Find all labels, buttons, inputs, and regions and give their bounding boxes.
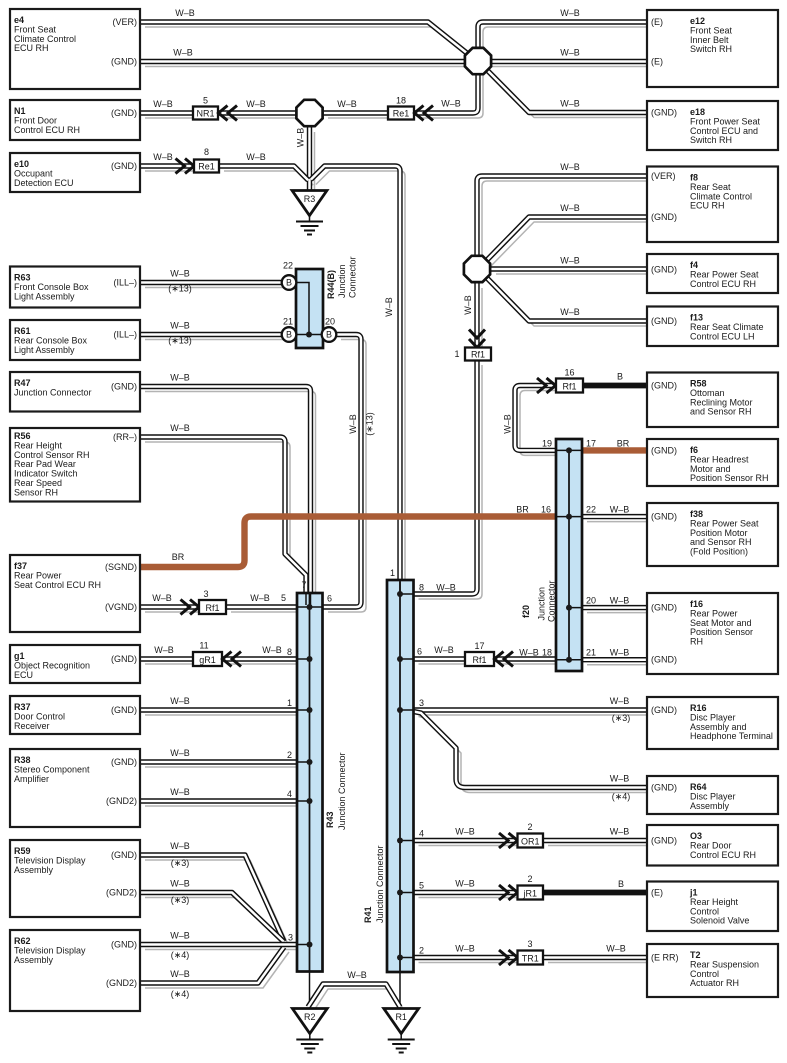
svg-text:(VGND): (VGND)	[105, 602, 137, 612]
svg-text:BR: BR	[617, 438, 630, 448]
svg-text:Headphone Terminal: Headphone Terminal	[690, 731, 773, 741]
wire f20 pin 22 to f38 (GND)	[582, 514, 647, 519]
svg-text:(GND): (GND)	[651, 512, 677, 522]
svg-text:W–B: W–B	[173, 48, 193, 58]
svg-text:(∗13): (∗13)	[168, 336, 192, 346]
svg-text:W–B: W–B	[347, 970, 367, 980]
svg-text:BR: BR	[516, 505, 529, 515]
wire R41 pin 4 to OR1	[414, 838, 518, 843]
wire TR1 to T2 (E RR)	[543, 955, 647, 960]
connector Re1 pin 18	[388, 107, 414, 120]
svg-text:W–B: W–B	[560, 203, 580, 213]
svg-text:W–B: W–B	[152, 593, 172, 603]
svg-text:W–B: W–B	[441, 99, 461, 109]
R43 internal line redraw	[309, 593, 311, 972]
svg-text:ECU RH: ECU RH	[14, 43, 49, 53]
wire R38 (GND) to R43 pin 2	[140, 759, 297, 764]
label R44(B) Junction Connector	[326, 256, 358, 299]
wire splice to e18 (GND)	[486, 69, 647, 113]
svg-text:B: B	[286, 278, 292, 288]
svg-text:ECU RH: ECU RH	[690, 201, 725, 211]
svg-text:3: 3	[527, 939, 532, 949]
svg-text:Re1: Re1	[198, 161, 215, 171]
wire splice S to f4 (GND)	[491, 266, 647, 271]
svg-text:(∗13): (∗13)	[365, 412, 375, 436]
svg-text:(GND): (GND)	[111, 161, 137, 171]
svg-text:W–B: W–B	[560, 162, 580, 172]
svg-text:Actuator RH: Actuator RH	[690, 978, 739, 988]
svg-text:B: B	[286, 330, 292, 340]
wire e4 (VER) to splice	[140, 22, 468, 54]
wire R47 down to R43 pin 7	[140, 387, 311, 594]
wire N1 to NR1	[140, 110, 193, 115]
svg-text:Junction: Junction	[537, 587, 547, 621]
brown wire f20 pin 17 to f6 (GND)	[582, 447, 647, 453]
wire from R3 drop right, corner down to R41 pin 1	[311, 166, 400, 580]
svg-text:W–B: W–B	[436, 583, 456, 593]
wire R61 to circle B 21	[140, 332, 282, 337]
svg-text:Junction Connector: Junction Connector	[375, 845, 385, 923]
connector NR1	[193, 107, 218, 120]
f16 Rear Power Seat Motor and Position Sensor RH	[647, 593, 778, 674]
T2 Rear Suspension Control Actuator RH	[647, 944, 778, 997]
R64 Disc Player Assembly	[647, 776, 778, 814]
arrows at Rf1 3	[181, 600, 200, 615]
R16 Disc Player Assembly and Headphone Terminal	[647, 697, 778, 749]
svg-text:2: 2	[287, 750, 292, 760]
junction connector R41 body	[387, 580, 414, 972]
ECU N1 Front Door Control ECU RH	[10, 100, 140, 140]
R41 internal bus line	[399, 580, 401, 972]
svg-text:Rf1: Rf1	[471, 349, 485, 359]
wire splice to e12 (E) top	[478, 22, 647, 52]
svg-text:W–B: W–B	[384, 297, 394, 317]
svg-text:Light Assembly: Light Assembly	[14, 345, 75, 355]
svg-text:3: 3	[203, 589, 208, 599]
connector TR1	[518, 951, 544, 965]
junction dots R43	[307, 604, 313, 610]
svg-text:(GND): (GND)	[651, 705, 677, 715]
svg-text:W–B: W–B	[170, 787, 190, 797]
svg-text:(GND): (GND)	[651, 265, 677, 275]
splice joint top-left	[296, 100, 322, 126]
svg-text:W–B: W–B	[455, 827, 475, 837]
svg-text:W–B: W–B	[175, 8, 195, 18]
svg-text:(GND): (GND)	[651, 655, 677, 665]
wire R41 pin 2 to TR1	[414, 955, 518, 960]
splice joint top-right	[465, 48, 491, 74]
svg-text:1: 1	[454, 349, 459, 359]
R41 pin stubs	[400, 594, 414, 958]
svg-text:R1: R1	[395, 1012, 407, 1022]
svg-text:8: 8	[287, 647, 292, 657]
svg-text:(VER): (VER)	[113, 17, 138, 27]
R43 pin stubs	[297, 607, 323, 945]
svg-text:W–B: W–B	[170, 879, 190, 889]
svg-text:W–B: W–B	[348, 414, 358, 434]
wire Rf1 17 to f20 pin 18	[494, 656, 556, 661]
wire R59 (GND) to fan point	[140, 855, 284, 942]
svg-text:Junction: Junction	[337, 264, 347, 298]
svg-text:(GND2): (GND2)	[106, 796, 137, 806]
svg-text:(ILL–): (ILL–)	[113, 278, 137, 288]
wire f20 pin 19 loop to Rf1 16	[515, 386, 556, 451]
wire R41 pin 3 to R16 (GND)	[414, 707, 648, 712]
svg-text:17: 17	[586, 438, 596, 448]
svg-text:6: 6	[327, 594, 332, 604]
wire g1 to gR1	[140, 656, 193, 661]
svg-text:(RR–): (RR–)	[113, 432, 137, 442]
arrows at Re1 18	[415, 106, 434, 121]
svg-text:Light Assembly: Light Assembly	[14, 291, 75, 301]
svg-text:R41: R41	[363, 906, 373, 923]
R63 Front Console Box Light Assembly	[10, 267, 140, 308]
connector Rf1 pin 16	[556, 379, 583, 393]
f20 pin stubs	[556, 450, 582, 659]
svg-text:(GND): (GND)	[651, 381, 677, 391]
svg-text:(E): (E)	[651, 17, 663, 27]
svg-text:Control ECU LH: Control ECU LH	[690, 331, 755, 341]
svg-text:4: 4	[419, 829, 424, 839]
svg-text:(∗13): (∗13)	[168, 284, 192, 294]
svg-text:Solenoid Valve: Solenoid Valve	[690, 916, 749, 926]
svg-text:(GND): (GND)	[111, 850, 137, 860]
pin1 entry into R41	[399, 580, 401, 595]
svg-text:R2: R2	[304, 1012, 316, 1022]
black wire Rf1 16 to R58 (GND)	[583, 383, 647, 389]
f6 Rear Headrest Motor and Position Sensor RH	[647, 439, 778, 486]
svg-text:(GND): (GND)	[651, 836, 677, 846]
svg-text:(GND): (GND)	[651, 108, 677, 118]
wire R41 pin 6 to Rf1 17	[414, 656, 466, 661]
svg-text:(E): (E)	[651, 57, 663, 67]
connector gR1	[193, 652, 222, 666]
ECU g1 Object Recognition ECU	[10, 645, 140, 683]
wire splice N to Re1 18	[323, 110, 388, 115]
svg-text:2: 2	[527, 822, 532, 832]
junction connector R44(B) body	[296, 269, 323, 348]
wire ground R2 to ground R1 link	[308, 984, 400, 1007]
svg-text:B: B	[618, 879, 624, 889]
svg-text:(Fold Position): (Fold Position)	[690, 547, 748, 557]
f20 internal bus line	[568, 450, 570, 659]
arrows above Rf1 1	[469, 330, 485, 348]
svg-text:18: 18	[396, 96, 406, 106]
e18 Front Power Seat Control ECU and Switch RH	[647, 101, 778, 150]
svg-text:W–B: W–B	[610, 596, 630, 606]
svg-text:R43: R43	[325, 811, 335, 828]
svg-text:Re1: Re1	[393, 108, 410, 118]
R62 Television Display Assembly	[10, 930, 140, 1011]
svg-text:W–B: W–B	[154, 645, 174, 655]
e12 Front Seat Inner Belt Switch RH	[647, 10, 778, 87]
svg-text:W–B: W–B	[455, 879, 475, 889]
ECU f37 Rear Power Seat Control ECU RH	[10, 555, 140, 632]
svg-text:W–B: W–B	[560, 256, 580, 266]
svg-text:(GND): (GND)	[651, 783, 677, 793]
svg-text:Switch RH: Switch RH	[690, 135, 732, 145]
svg-text:Assembly: Assembly	[14, 955, 54, 965]
wire splice N down to ground R3	[307, 127, 312, 191]
svg-text:W–B: W–B	[337, 99, 357, 109]
wire e10 to Re1 8	[140, 163, 194, 168]
svg-text:(∗4): (∗4)	[612, 792, 631, 802]
svg-text:Rf1: Rf1	[562, 381, 576, 391]
svg-text:W–B: W–B	[560, 48, 580, 58]
svg-text:W–B: W–B	[153, 152, 173, 162]
svg-text:W–B: W–B	[503, 414, 513, 434]
svg-text:Sensor RH: Sensor RH	[14, 487, 58, 497]
svg-text:(∗3): (∗3)	[612, 713, 631, 723]
R37 Door Control Receiver	[10, 696, 140, 734]
svg-text:W–B: W–B	[170, 931, 190, 941]
R58 Ottoman Reclining Motor and Sensor RH	[647, 373, 778, 428]
svg-text:(GND): (GND)	[651, 212, 677, 222]
ground point R1	[384, 1009, 419, 1053]
f20 internal line redraw	[568, 450, 570, 659]
svg-text:(GND): (GND)	[111, 654, 137, 664]
svg-text:5: 5	[281, 593, 286, 603]
f4 Rear Power Seat Control ECU RH	[647, 254, 778, 293]
svg-text:(GND): (GND)	[111, 382, 137, 392]
j1 Rear Height Control Solenoid Valve	[647, 882, 778, 932]
wire OR1 to O3 (GND)	[543, 838, 647, 843]
wire Re1 8 merging down into R3 drop	[219, 166, 308, 180]
svg-text:Control ECU RH: Control ECU RH	[14, 125, 80, 135]
wire R43 to ground R2	[309, 972, 311, 1010]
svg-text:22: 22	[283, 261, 293, 271]
svg-text:21: 21	[586, 648, 596, 658]
wire R59 (GND2) to fan point	[140, 893, 284, 943]
svg-text:W–B: W–B	[170, 969, 190, 979]
svg-text:W–B: W–B	[610, 827, 630, 837]
connector OR1	[518, 834, 544, 848]
svg-text:2: 2	[419, 946, 424, 956]
svg-text:W–B: W–B	[170, 748, 190, 758]
arrows at Rf1 16	[537, 378, 556, 393]
wire Rf1 1 down to R41 pin 8	[414, 360, 478, 594]
brown wire f37 (SGND) to f20 pin 16	[140, 517, 556, 568]
svg-text:OR1: OR1	[521, 836, 540, 846]
arrows at jR1	[499, 885, 518, 900]
svg-text:(∗4): (∗4)	[171, 950, 190, 960]
svg-text:ECU: ECU	[14, 670, 33, 680]
svg-text:BR: BR	[172, 552, 185, 562]
svg-text:19: 19	[542, 438, 552, 448]
svg-text:(GND): (GND)	[111, 108, 137, 118]
svg-text:11: 11	[199, 641, 208, 651]
svg-text:3: 3	[419, 698, 424, 708]
connector Rf1 pin 17	[465, 652, 494, 666]
R59 Television Display Assembly	[10, 840, 140, 917]
svg-text:gR1: gR1	[199, 655, 216, 665]
wire f37 (VGND) to Rf1 3	[140, 604, 199, 609]
svg-text:W–B: W–B	[170, 321, 190, 331]
svg-text:W–B: W–B	[170, 269, 190, 279]
connector Re1 pin 8	[194, 160, 219, 173]
wire splice down-left to Re1 18	[414, 70, 478, 113]
connector B pin 21	[282, 327, 297, 342]
svg-text:(GND2): (GND2)	[106, 978, 137, 988]
svg-text:Control ECU RH: Control ECU RH	[690, 850, 756, 860]
svg-text:TR1: TR1	[522, 953, 539, 963]
svg-text:5: 5	[203, 96, 208, 106]
svg-text:(SGND): (SGND)	[105, 562, 137, 572]
junction connector R43 body	[297, 593, 323, 972]
svg-text:W–B: W–B	[610, 505, 630, 515]
svg-text:W–B: W–B	[170, 373, 190, 383]
svg-text:Control ECU RH: Control ECU RH	[690, 279, 756, 289]
f38 Rear Power Seat Position Motor and Sensor RH	[647, 503, 778, 566]
svg-text:W–B: W–B	[606, 944, 626, 954]
svg-text:W–B: W–B	[610, 648, 630, 658]
R44(B) internal wire	[296, 283, 323, 335]
svg-text:Rf1: Rf1	[472, 655, 486, 665]
wire f20 pin 20 to f16 (GND)	[582, 605, 647, 610]
wire R41 pin 5 to jR1	[414, 890, 518, 895]
pin7 entry into R43	[306, 593, 311, 605]
svg-text:W–B: W–B	[262, 645, 282, 655]
wire f20 pin 21 to f16 (GND) lower	[582, 657, 647, 662]
wire R41 to ground R1	[399, 972, 401, 1009]
svg-text:W–B: W–B	[560, 307, 580, 317]
wire R62 (GND) to R43 pin 3	[140, 942, 297, 947]
svg-text:(GND): (GND)	[651, 603, 677, 613]
svg-text:(E RR): (E RR)	[651, 953, 679, 963]
R47 Junction Connector box	[10, 372, 140, 412]
svg-text:Connector: Connector	[348, 256, 358, 298]
svg-text:18: 18	[542, 648, 552, 658]
junction dot R44(B)	[306, 332, 312, 338]
svg-text:2: 2	[527, 874, 532, 884]
svg-text:1: 1	[390, 568, 395, 578]
svg-text:Position Sensor RH: Position Sensor RH	[690, 473, 769, 483]
svg-text:21: 21	[283, 317, 293, 327]
svg-text:(GND): (GND)	[111, 940, 137, 950]
wire e4 (GND) through splice to e12 (E)	[140, 59, 647, 64]
svg-text:Junction Connector: Junction Connector	[337, 752, 347, 830]
svg-text:W–B: W–B	[246, 152, 266, 162]
svg-text:(GND2): (GND2)	[106, 888, 137, 898]
svg-text:(GND): (GND)	[651, 316, 677, 326]
svg-text:(GND): (GND)	[111, 757, 137, 767]
svg-text:W–B: W–B	[250, 593, 270, 603]
wire splice S down to Rf1 1	[474, 283, 479, 348]
wire R56 down to R43 pin 7	[140, 437, 306, 593]
svg-text:(E): (E)	[651, 888, 663, 898]
svg-text:W–B: W–B	[170, 696, 190, 706]
svg-text:7: 7	[301, 580, 306, 590]
svg-text:16: 16	[541, 505, 551, 515]
svg-text:Rf1: Rf1	[205, 603, 219, 613]
wire splice S up to f8 (VER)	[477, 176, 647, 255]
label R41 Junction Connector	[363, 845, 385, 923]
svg-text:20: 20	[325, 317, 335, 327]
svg-text:1: 1	[287, 698, 292, 708]
junction dots R41	[397, 591, 403, 597]
R56 Rear Height Control Sensor RH	[10, 428, 140, 502]
wire shadows	[145, 27, 652, 1012]
svg-text:(ILL–): (ILL–)	[113, 330, 137, 340]
svg-text:R3: R3	[304, 194, 316, 204]
connector B pin 20	[322, 327, 337, 342]
ground point R3	[292, 191, 327, 235]
svg-text:Seat Control ECU RH: Seat Control ECU RH	[14, 580, 101, 590]
svg-text:16: 16	[564, 368, 574, 378]
wire R38 (GND2) to R43 pin 4	[140, 798, 297, 803]
junction connector f20 body	[556, 439, 582, 671]
arrows at Rf1 17	[495, 652, 514, 667]
svg-text:B: B	[617, 372, 623, 382]
svg-text:jR1: jR1	[522, 888, 537, 898]
svg-text:f20: f20	[521, 605, 531, 618]
svg-text:20: 20	[586, 596, 596, 606]
black wire jR1 to j1 (E)	[543, 890, 647, 896]
connector Rf1 pin 1	[465, 348, 491, 361]
ECU e10 Occupant Detection ECU	[10, 153, 140, 192]
svg-text:Assembly: Assembly	[14, 865, 54, 875]
svg-text:W–B: W–B	[296, 128, 306, 148]
connector Rf1 pin 3	[199, 600, 226, 614]
svg-text:W–B: W–B	[434, 645, 454, 655]
svg-text:W–B: W–B	[463, 295, 473, 315]
f8 Rear Seat Climate Control ECU RH	[647, 167, 778, 243]
svg-text:4: 4	[287, 789, 292, 799]
R41 internal line redraw	[399, 582, 401, 971]
svg-text:W–B: W–B	[455, 944, 475, 954]
svg-text:Switch RH: Switch RH	[690, 44, 732, 54]
svg-text:(GND): (GND)	[651, 445, 677, 455]
label f20 Junction Connector	[521, 580, 557, 622]
svg-text:(VER): (VER)	[651, 171, 676, 181]
splice joint middle	[464, 256, 490, 282]
svg-text:R44(B): R44(B)	[326, 270, 336, 299]
arrows at Re1 8	[176, 159, 195, 174]
svg-text:RH: RH	[690, 637, 703, 647]
R43 internal bus line	[309, 593, 311, 972]
svg-text:NR1: NR1	[196, 108, 214, 118]
svg-text:W–B: W–B	[610, 774, 630, 784]
arrows at OR1	[499, 833, 518, 848]
R38 Stereo Component Amplifier	[10, 749, 140, 827]
svg-text:and Sensor RH: and Sensor RH	[690, 407, 752, 417]
svg-text:W–B: W–B	[610, 696, 630, 706]
R61 Rear Console Box Light Assembly	[10, 320, 140, 360]
arrows at NR1	[219, 106, 238, 121]
svg-text:8: 8	[419, 583, 424, 593]
svg-text:(GND): (GND)	[111, 57, 137, 67]
svg-text:B: B	[326, 330, 332, 340]
svg-text:W–B: W–B	[560, 99, 580, 109]
O3 Rear Door Control ECU RH	[647, 825, 778, 866]
wire R62 (GND2) to fan point	[140, 947, 284, 983]
svg-text:(∗3): (∗3)	[171, 858, 190, 868]
svg-text:8: 8	[204, 147, 209, 157]
svg-text:Connector: Connector	[547, 580, 557, 622]
svg-text:6: 6	[417, 647, 422, 657]
svg-text:Detection ECU: Detection ECU	[14, 178, 74, 188]
ground point R2	[292, 1009, 327, 1053]
svg-text:Assembly: Assembly	[690, 801, 730, 811]
svg-text:W–B: W–B	[170, 841, 190, 851]
svg-text:22: 22	[586, 505, 596, 515]
svg-text:W–B: W–B	[519, 648, 539, 658]
wire splice S to f8 (GND)	[486, 217, 647, 261]
wire R37 to R43 pin 1	[140, 707, 297, 712]
svg-text:3: 3	[288, 933, 293, 943]
svg-text:Receiver: Receiver	[14, 721, 50, 731]
wire Rf1 3 to R43 pin 5	[226, 604, 297, 609]
